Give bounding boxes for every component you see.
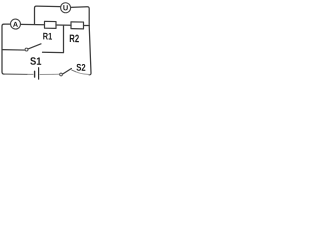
svg-text:U: U [63,3,68,12]
svg-text:S2: S2 [76,63,86,74]
svg-text:A: A [13,20,18,29]
svg-text:R2: R2 [69,33,79,45]
svg-text:S1: S1 [30,56,42,68]
svg-text:R1: R1 [43,31,53,42]
